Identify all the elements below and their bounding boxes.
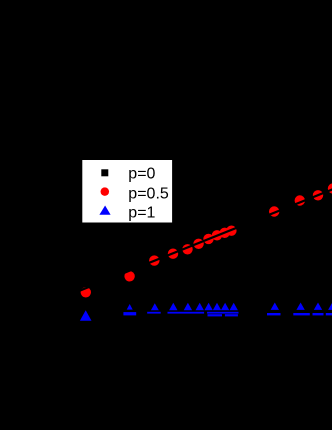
red point x=4	[168, 249, 178, 259]
red point x=2	[124, 271, 134, 281]
blue triangle x=20	[271, 303, 279, 310]
blue triangle x=50	[328, 303, 332, 310]
blue lower dash under x=7..8	[208, 314, 223, 316]
red point x=1	[81, 287, 91, 297]
blue triangle x=30	[296, 303, 304, 310]
blue dash under x=50	[326, 313, 332, 315]
red point x=9	[220, 228, 230, 238]
svg-text:p=0.5: p=0.5	[128, 186, 169, 203]
legend marker: blue triangle (p=1)	[99, 206, 110, 215]
red circle series p=0.5: data markers	[81, 183, 332, 297]
blue thin line under x=7..10	[207, 312, 238, 314]
blue triangle x=4	[169, 303, 177, 310]
svg-text:p=0: p=0	[128, 166, 155, 183]
red point x=6	[193, 239, 203, 249]
red point x=50	[328, 183, 332, 193]
blue lower dash under x=9..10	[225, 314, 238, 316]
blue triangle x=9	[221, 303, 229, 310]
red point x=10	[226, 226, 236, 236]
blue triangle x=6	[196, 303, 204, 310]
blue triangle x=3	[151, 303, 159, 310]
blue triangle series p=1: data markers	[80, 303, 332, 321]
blue triangle x=10	[230, 303, 238, 310]
blue triangle x=1 (large)	[80, 310, 92, 321]
blue triangle x=7	[204, 303, 212, 310]
blue dash under x=30	[293, 313, 310, 315]
red point x=30	[295, 195, 305, 205]
red point x=40	[313, 190, 323, 200]
legend box	[82, 160, 172, 223]
svg-text:p=1: p=1	[128, 204, 155, 221]
red point x=3	[149, 255, 159, 265]
blue triangle x=40	[314, 303, 322, 310]
blue triangle x=5	[184, 303, 192, 310]
blue dash under x=40	[313, 313, 324, 315]
blue dash under x=2	[123, 312, 136, 315]
blue dash under x=20	[267, 313, 281, 315]
red point x=7	[203, 234, 213, 244]
red point x=20	[269, 206, 279, 216]
red point x=8	[212, 230, 222, 240]
red point x=5	[182, 244, 192, 254]
blue triangle x=2	[127, 304, 133, 310]
blue dashed fit line under the p=1 triangles	[123, 312, 332, 317]
blue dash under x=4..6	[168, 312, 205, 314]
blue triangle x=8	[213, 303, 221, 310]
blue dash under x=3	[147, 312, 161, 314]
legend marker: black square (p=0)	[101, 169, 108, 176]
legend marker: red circle (p=0.5)	[101, 187, 110, 196]
black fit line crossing over the red circles (invisible on black background)	[73, 186, 332, 293]
